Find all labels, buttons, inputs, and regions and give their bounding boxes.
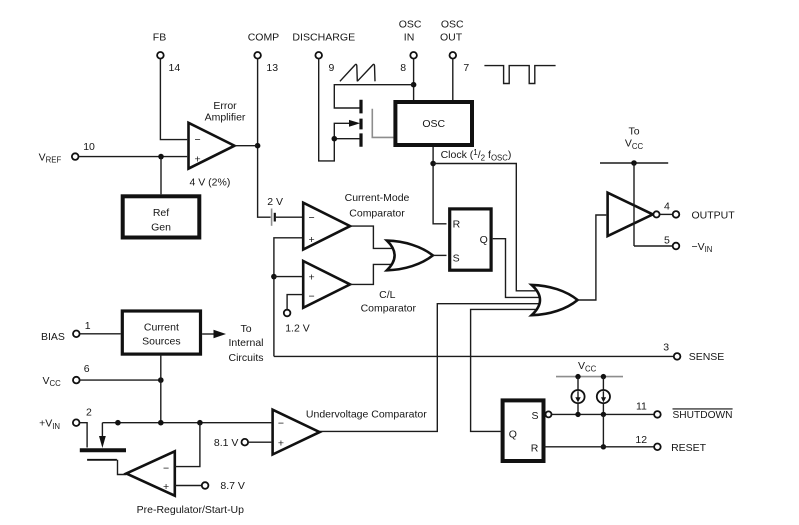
node VCC bar left junction (575, 374, 580, 379)
pin 11 SHUTDOWN (552, 401, 733, 422)
svg-text:Current: Current (144, 322, 179, 334)
svg-text:RESET: RESET (671, 442, 707, 454)
svg-text:To: To (240, 323, 251, 335)
pin 8 OSC IN (399, 19, 422, 74)
node COMP / error amp output junction (255, 143, 261, 149)
wire junction to Ref Gen block (160, 157, 162, 195)
wire VCC pin to node (80, 379, 161, 381)
svg-text:4: 4 (664, 201, 670, 213)
wire FB to error amp inverting input (160, 59, 187, 140)
svg-text:BIAS: BIAS (41, 331, 65, 343)
wire shutdown latch Q to OR2 fourth input (471, 309, 536, 431)
block OSC oscillator (395, 102, 472, 145)
svg-text:Pre-Regulator/Start-Up: Pre-Regulator/Start-Up (137, 504, 245, 516)
node pre-regulator sense junction (197, 420, 203, 426)
svg-text:+: + (195, 153, 201, 165)
op-amp U6 pre-regulator (points left) (126, 451, 244, 516)
svg-text:2 V: 2 V (267, 196, 283, 208)
pin 1 BIAS (41, 320, 91, 343)
wire current source I1 to shutdown line (577, 403, 579, 414)
node VCC bar right junction (601, 374, 606, 379)
clock pulse waveform icon (484, 66, 555, 84)
svg-text:+: + (278, 438, 284, 450)
svg-text:S: S (532, 410, 539, 422)
wire Q output to OR2 second input (493, 239, 540, 298)
pin 3 SENSE (274, 341, 724, 363)
svg-text:1.2 V: 1.2 V (285, 323, 310, 335)
node arrow junction (115, 420, 121, 426)
wire +VIN pin to pass transistor (80, 423, 87, 448)
wire C/L comparator output to OR1 (350, 264, 392, 284)
wire VCC bar to current source I1 (577, 377, 579, 390)
pin 7 OSC OUT (440, 19, 469, 74)
wire Current Sources bottom to +VIN node (160, 355, 162, 423)
wire clock output of OSC (433, 147, 446, 224)
pin 4 OUTPUT (660, 201, 736, 222)
svg-text:Circuits: Circuits (228, 352, 263, 364)
wire To VCC rail (600, 162, 668, 164)
svg-text:OSC: OSC (399, 19, 422, 31)
gate OR1 (387, 241, 433, 271)
wire BIAS to Current Sources block (80, 333, 121, 335)
wire CM comparator + input to sense rail (274, 238, 302, 357)
wire OSC OUT pin to OSC block (452, 59, 454, 100)
wire OSC IN pin to OSC block (413, 59, 415, 100)
arrow To Internal Circuits (202, 323, 263, 364)
label Clock (1/2 fOSC) (441, 148, 512, 163)
svg-text:4 V (2%): 4 V (2%) (190, 177, 231, 189)
svg-text:+: + (309, 234, 315, 246)
svg-text:Sources: Sources (142, 336, 181, 348)
latch U8 shutdown latch (503, 400, 552, 461)
svg-text:13: 13 (266, 62, 278, 74)
svg-text:8: 8 (400, 62, 406, 74)
svg-text:FB: FB (153, 31, 166, 43)
svg-text:−: − (309, 290, 315, 302)
wire current source I2 to shutdown line (602, 403, 604, 414)
node shutdown line I2 junction (601, 412, 606, 417)
svg-text:SENSE: SENSE (689, 351, 725, 363)
svg-text:S: S (453, 253, 460, 265)
svg-text:6: 6 (84, 363, 90, 375)
svg-text:OSC: OSC (441, 19, 464, 31)
battery 2V reference (267, 196, 283, 226)
buffer U5 output driver (608, 193, 660, 236)
node Q1 source junction (332, 136, 338, 142)
op-amp U1 error amplifier (189, 100, 246, 189)
wire DISCHARGE pin down to transistor source (319, 59, 335, 161)
pin 6 VCC (43, 363, 90, 388)
wire Q1 gate to OSC block (gray) (372, 109, 393, 138)
wire COMP down to 2V battery (258, 59, 271, 217)
svg-text:COMP: COMP (248, 31, 280, 43)
svg-text:+: + (163, 481, 169, 493)
wire OSC IN branch to discharge transistor drain (334, 85, 413, 108)
flip-flop U4 PWM latch (450, 209, 491, 270)
pin 14 FB (153, 31, 181, 74)
wire C/L + input (274, 276, 302, 278)
svg-text:To: To (628, 126, 639, 138)
svg-text:−: − (278, 418, 284, 430)
node VCC junction (158, 377, 164, 383)
comparator U2 current-mode comparator (303, 192, 409, 250)
pin 13 COMP (248, 31, 280, 74)
sawtooth waveform icon (340, 64, 375, 81)
svg-text:11: 11 (636, 401, 647, 413)
pin 2 +VIN (39, 407, 92, 431)
gate OR2 (532, 285, 578, 315)
wire VCC bar (gray) (556, 376, 623, 378)
current source I1 (571, 390, 584, 403)
svg-text:R: R (531, 442, 539, 454)
pin 5 -VIN (634, 235, 712, 255)
wire node to pre-regulator inverting input (175, 423, 200, 467)
wire OR1 output to flip-flop S input (433, 254, 447, 256)
svg-text:Amplifier: Amplifier (205, 112, 246, 124)
node VCC rail junction on +VIN node (158, 420, 164, 426)
wire VREF to error amp non-inverting input (79, 156, 188, 158)
svg-text:SHUTDOWN: SHUTDOWN (673, 409, 733, 421)
svg-text:−: − (195, 134, 201, 146)
node VREF / Ref Gen junction (158, 154, 164, 160)
svg-text:5: 5 (664, 235, 670, 247)
block Current Sources (122, 311, 200, 354)
wire 1.2V to C/L inverting input (287, 295, 302, 310)
svg-text:+: + (309, 271, 315, 283)
svg-text:−: − (309, 212, 315, 224)
svg-text:10: 10 (83, 141, 95, 153)
svg-text:9: 9 (329, 62, 335, 74)
svg-text:−: − (163, 463, 169, 475)
svg-text:Comparator: Comparator (361, 302, 417, 314)
svg-text:12: 12 (635, 434, 647, 446)
pin 8.7V reference (175, 480, 245, 492)
svg-text:7: 7 (463, 62, 469, 74)
wire VCC rail down through driver to -VIN (633, 163, 635, 246)
svg-text:IN: IN (404, 31, 415, 43)
svg-text:R: R (453, 218, 461, 230)
block Ref Gen (123, 196, 200, 237)
label To VCC (625, 126, 644, 151)
pin 9 DISCHARGE (292, 31, 355, 74)
svg-text:OUTPUT: OUTPUT (692, 209, 736, 221)
svg-text:1: 1 (85, 320, 91, 332)
pin 1.2V reference (284, 310, 310, 335)
comparator U7 undervoltage comparator (273, 409, 428, 455)
wire OR2 output to driver input (578, 215, 607, 300)
svg-text:Q: Q (480, 234, 488, 246)
node reset line junction (601, 444, 606, 449)
svg-text:Internal: Internal (228, 337, 263, 349)
svg-text:3: 3 (663, 341, 669, 353)
pin 12 RESET (544, 434, 707, 454)
wire clock branch to OR2 top input (433, 164, 535, 291)
pin 8.1V reference (214, 437, 272, 449)
svg-text:Current-Mode: Current-Mode (345, 192, 410, 204)
svg-text:C/L: C/L (379, 289, 396, 301)
wire undervoltage comparator output to OR2 third input (320, 304, 540, 432)
node C/L + input junction (271, 274, 277, 280)
node VCC rail junction (631, 160, 637, 166)
comparator U3 C/L comparator (303, 261, 416, 314)
svg-text:Error: Error (213, 100, 237, 112)
current source I2 (597, 390, 610, 403)
wire CM comparator output to OR1 (350, 226, 392, 248)
wire error amp output to COMP node (235, 145, 258, 147)
transistor Q1 discharge MOSFET (334, 100, 361, 147)
svg-text:Gen: Gen (151, 222, 171, 234)
svg-text:14: 14 (169, 62, 181, 74)
svg-text:Q: Q (509, 428, 517, 440)
wire shutdown line to reset line (602, 414, 604, 446)
svg-text:Undervoltage Comparator: Undervoltage Comparator (306, 409, 427, 421)
node shutdown line I1 junction (575, 412, 580, 417)
svg-text:8.7 V: 8.7 V (220, 480, 245, 492)
svg-text:Ref: Ref (153, 207, 169, 219)
wire battery to current-mode comparator inverting input (276, 216, 302, 218)
wire VCC bar to current source I2 (602, 377, 604, 390)
svg-text:OUT: OUT (440, 31, 463, 43)
node OSC IN junction (411, 82, 417, 88)
node clock junction (430, 161, 436, 167)
transistor Q2 pass MOSFET (80, 423, 127, 475)
svg-text:2: 2 (86, 407, 92, 419)
svg-text:OSC: OSC (422, 118, 445, 130)
wire +VIN node rail to undervoltage comparator (102, 422, 271, 424)
svg-text:DISCHARGE: DISCHARGE (292, 31, 355, 43)
pin 10 VREF (39, 141, 95, 165)
svg-text:8.1 V: 8.1 V (214, 437, 239, 449)
svg-text:Comparator: Comparator (349, 207, 405, 219)
